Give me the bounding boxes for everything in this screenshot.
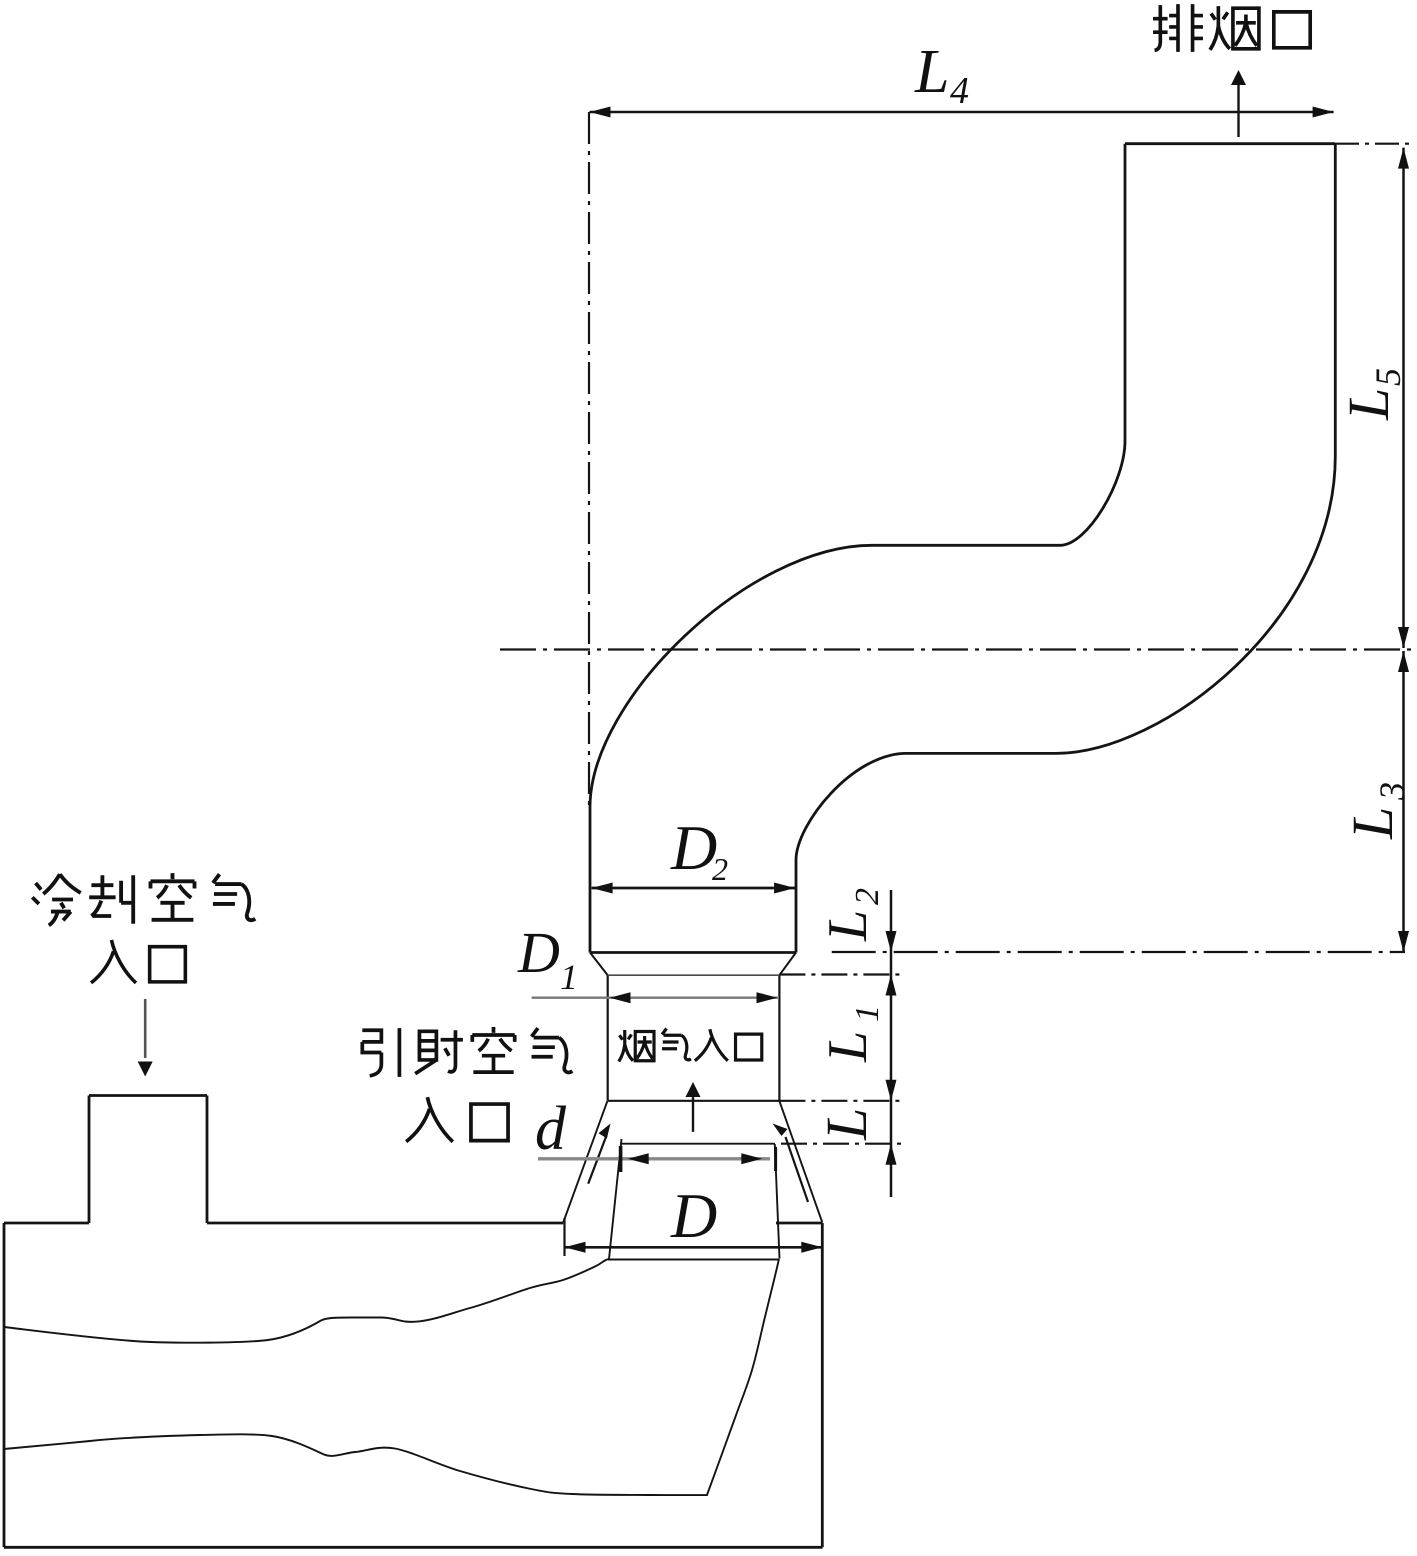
label 入口 (cooling air) — [91, 940, 136, 983]
svg-text:5: 5 — [1368, 368, 1408, 386]
d dimension wall tick left — [619, 1146, 623, 1172]
d dimension wall tick right — [774, 1147, 777, 1171]
S-duct right wall curve — [796, 456, 1335, 860]
svg-text:L: L — [1340, 807, 1405, 840]
svg-text:d: d — [535, 1095, 567, 1163]
upper stack pipe left wall — [1124, 144, 1127, 441]
ejected air arrow right — [786, 1137, 809, 1202]
label 排烟口 — [1153, 4, 1203, 52]
S-duct left wall curve — [590, 441, 1125, 807]
throat top thin line — [608, 974, 780, 976]
taper right — [779, 953, 796, 976]
nozzle inner wall left — [609, 1139, 622, 1259]
internal flow guide lower curve — [4, 1259, 779, 1495]
D extension tick left — [563, 1218, 565, 1256]
vertical dimension line for L2 L1 L — [890, 890, 893, 1197]
dimension D2 line — [592, 887, 796, 890]
nozzle inner wall right — [775, 1144, 780, 1259]
upper stack pipe top edge — [1125, 142, 1335, 145]
reference dash-dot line at throat top — [779, 973, 905, 975]
dimension D line — [565, 1246, 823, 1249]
svg-text:L: L — [814, 1108, 879, 1141]
dimension D1 line — [532, 997, 779, 999]
nozzle base line — [608, 1259, 779, 1261]
svg-text:3: 3 — [1372, 782, 1412, 801]
chamber box top edge right segment — [776, 1222, 822, 1225]
label 引射空气 — [362, 1028, 399, 1077]
chamber box bottom edge — [4, 1546, 823, 1549]
svg-text:2: 2 — [712, 851, 728, 887]
label 冷却空气 — [32, 874, 80, 925]
stack outlet axis dash-dot top right — [1335, 143, 1412, 145]
nozzle rim line — [622, 1143, 776, 1145]
throat right wall — [778, 975, 780, 1101]
chamber box top edge left segment — [4, 1222, 89, 1225]
dimension L5 line — [1402, 148, 1405, 648]
lower pipe D2 right wall — [795, 860, 798, 953]
lower pipe D2 left wall — [589, 807, 592, 953]
chamber box left wall — [3, 1223, 6, 1547]
centre axis dash-dot horizontal — [500, 648, 1412, 650]
internal flow guide upper curve — [4, 1259, 608, 1343]
taper left — [590, 953, 608, 976]
svg-text:D: D — [670, 812, 717, 883]
flue gas inlet arrow — [692, 1094, 694, 1132]
dimension L3 line — [1402, 651, 1405, 952]
dimension L4 line — [590, 111, 1334, 114]
centre axis dash-dot left vertical — [588, 112, 590, 810]
svg-text:D: D — [517, 920, 560, 985]
cooling air arrow — [144, 999, 147, 1058]
reference dash-dot line at nozzle rim — [781, 1143, 905, 1145]
funnel outer wall left — [563, 1101, 607, 1223]
svg-text:1: 1 — [560, 957, 578, 997]
throat left wall — [607, 975, 609, 1101]
cooling air stub right wall — [206, 1096, 209, 1224]
throat bottom edge — [608, 1100, 780, 1102]
svg-text:2: 2 — [849, 888, 886, 905]
chamber box right wall — [821, 1223, 824, 1547]
svg-text:1: 1 — [849, 1005, 886, 1022]
ejected air arrow left — [588, 1136, 606, 1184]
svg-text:4: 4 — [950, 70, 969, 112]
dimension d line — [538, 1157, 770, 1160]
reference dash-dot line at pipe bottom (L3/L2 datum) — [832, 951, 1405, 953]
upper stack pipe right wall — [1334, 144, 1337, 456]
svg-text:L: L — [914, 38, 949, 106]
cooling air stub left wall — [88, 1096, 91, 1224]
label 入口 (ejected air) — [406, 1097, 453, 1142]
svg-text:L: L — [817, 1031, 879, 1063]
svg-text:L: L — [1336, 388, 1401, 421]
lower pipe bottom edge — [590, 951, 796, 954]
chamber box top edge middle segment — [207, 1222, 563, 1225]
smoke outlet arrow — [1237, 84, 1239, 137]
svg-text:D: D — [670, 1180, 717, 1251]
funnel outer wall right — [779, 1101, 822, 1223]
cooling air stub top edge — [89, 1094, 207, 1097]
label 烟气入口 — [619, 1030, 654, 1062]
reference dash-dot line at throat bottom — [779, 1100, 905, 1102]
svg-text:L: L — [817, 910, 879, 942]
